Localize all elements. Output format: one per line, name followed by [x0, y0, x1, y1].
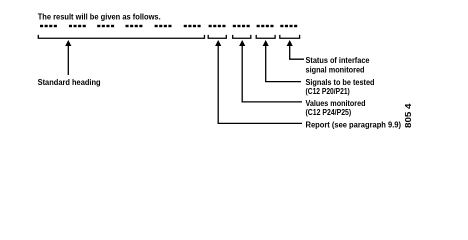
svg-text:805 4: 805 4 [404, 103, 413, 128]
small bracket 1 [208, 35, 226, 38]
arrow A4 shaft + connector to Status [290, 45, 304, 59]
arrow A0 head [65, 40, 71, 46]
svg-text:The result will be given as fo: The result will be given as follows. [38, 11, 161, 21]
svg-text:Report (see paragraph 9.9): Report (see paragraph 9.9) [306, 120, 402, 130]
dash group 9 [257, 25, 274, 27]
small bracket 2 [233, 35, 251, 38]
arrow A4 head [287, 40, 293, 46]
dash group 1 [40, 25, 57, 27]
dash group 7 [209, 25, 226, 27]
arrow A3 head [263, 40, 269, 46]
svg-text:(C12 P24/P25): (C12 P24/P25) [306, 107, 352, 117]
arrow A1 head [215, 40, 221, 46]
small bracket 4 [280, 35, 300, 38]
big bracket (standard heading) [38, 35, 204, 38]
arrow A3 shaft + connector to Signals to be tested [266, 45, 301, 82]
dash group 3 [97, 25, 114, 27]
small bracket 3 [256, 35, 275, 38]
dash group 5 [155, 25, 172, 27]
arrow A0 shaft [67, 45, 69, 75]
dash group 8 [233, 25, 250, 27]
svg-text:Standard heading: Standard heading [38, 77, 101, 87]
dash group 6 [184, 25, 201, 27]
svg-text:signal monitored: signal monitored [306, 65, 365, 75]
dash group 10 [280, 25, 297, 27]
svg-text:(C12 P20/P21): (C12 P20/P21) [306, 86, 350, 96]
dash group 4 [126, 25, 143, 27]
arrow A1 shaft + connector to Report [218, 45, 302, 123]
arrow A2 head [239, 40, 245, 46]
arrow A2 shaft + connector to Values monitored [242, 45, 302, 102]
dash group 2 [69, 25, 86, 27]
